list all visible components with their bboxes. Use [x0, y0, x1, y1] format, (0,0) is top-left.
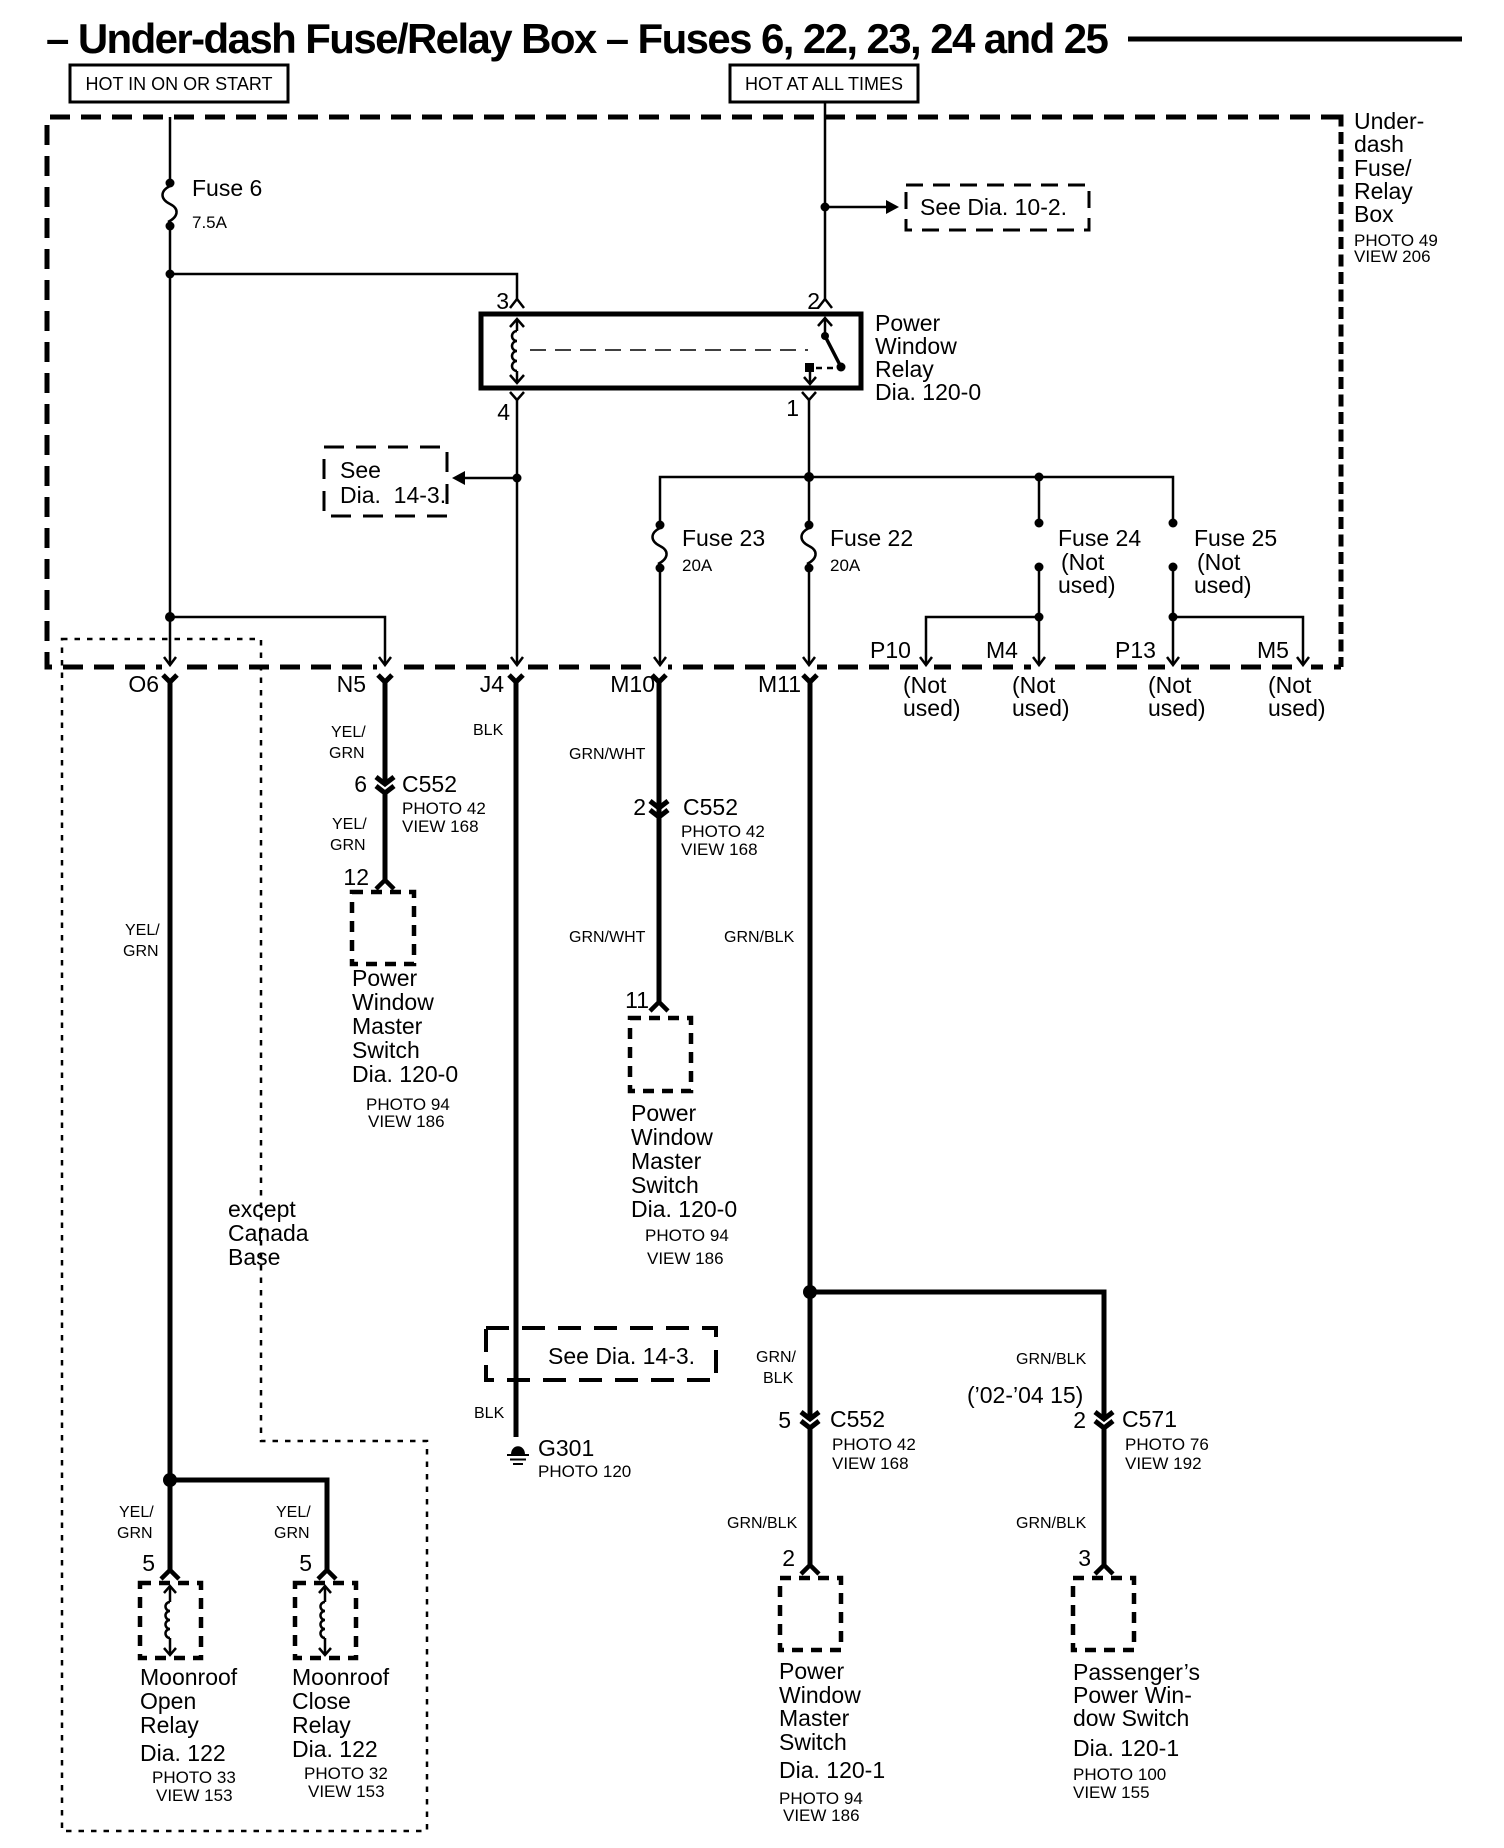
svg-text:BLK: BLK: [763, 1370, 794, 1387]
node junction passenger branch: [803, 1285, 817, 1299]
svg-text:M5: M5: [1257, 637, 1289, 663]
svg-text:Power: Power: [779, 1658, 845, 1684]
under-dash fuse/relay box boundary: [47, 117, 1341, 667]
wire fuse feeder bus: [660, 477, 1173, 525]
svg-text:Moonroof: Moonroof: [292, 1664, 390, 1690]
wire pin 1 down: [808, 400, 811, 477]
node junction See Dia. 14-3: [513, 474, 522, 483]
svg-text:Relay: Relay: [292, 1712, 351, 1738]
svg-text:dash: dash: [1354, 131, 1404, 157]
svg-text:Canada: Canada: [228, 1220, 309, 1246]
svg-text:GRN: GRN: [117, 1525, 153, 1542]
svg-text:Dia. 120-1: Dia. 120-1: [1073, 1735, 1179, 1761]
svg-text:N5: N5: [337, 671, 366, 697]
connector C552 label: [402, 771, 486, 836]
svg-text:Fuse 23: Fuse 23: [682, 525, 765, 551]
node junction to See Dia. 10-2: [821, 203, 830, 212]
switch S3 label: [779, 1658, 885, 1825]
svg-text:PHOTO 42: PHOTO 42: [832, 1435, 916, 1454]
fuse F22: [802, 521, 816, 573]
ground G301: [507, 1446, 529, 1464]
wire fuse6 down to O6: [169, 226, 172, 663]
wire fuse25 to P13/M5: [1167, 567, 1309, 665]
svg-text:VIEW 186: VIEW 186: [783, 1806, 860, 1825]
svg-text:VIEW 168: VIEW 168: [832, 1454, 909, 1473]
relay K3 label: [292, 1664, 390, 1801]
pin 2 entry master switch: [782, 1545, 819, 1574]
fuse F24 (not used) terminals: [1035, 519, 1044, 572]
svg-text:4: 4: [497, 399, 510, 425]
svg-text:J4: J4: [480, 671, 505, 697]
svg-text:YEL/: YEL/: [119, 1504, 154, 1521]
svg-text:PHOTO 76: PHOTO 76: [1125, 1435, 1209, 1454]
wire arrow to See Dia. 14-3: [452, 471, 517, 485]
relay internal dashed link: [530, 349, 808, 351]
svg-text:Power: Power: [631, 1100, 697, 1126]
node HOT IN ON OR START: [70, 65, 288, 102]
svg-text:20A: 20A: [682, 556, 713, 575]
svg-text:PHOTO 32: PHOTO 32: [304, 1764, 388, 1783]
svg-text:GRN/WHT: GRN/WHT: [569, 929, 646, 946]
relay K2 label: [140, 1664, 238, 1805]
svg-text:VIEW 206: VIEW 206: [1354, 247, 1431, 266]
svg-text:Power: Power: [352, 965, 418, 991]
svg-text:Master: Master: [779, 1705, 850, 1731]
relay K3 Moonroof Close Relay box: [295, 1583, 356, 1658]
svg-text:VIEW 153: VIEW 153: [308, 1782, 385, 1801]
switch S4 label: [1073, 1659, 1200, 1802]
svg-text:3: 3: [496, 288, 509, 314]
svg-text:O6: O6: [128, 671, 159, 697]
svg-text:Close: Close: [292, 1688, 351, 1714]
wire passenger lower: [1102, 1426, 1107, 1565]
svg-text:M4: M4: [986, 637, 1018, 663]
svg-text:PHOTO 42: PHOTO 42: [681, 822, 765, 841]
fuse F6 value label: [192, 175, 262, 232]
connector C552 pin 2: [633, 794, 668, 820]
svg-text:Dia. 120-1: Dia. 120-1: [779, 1757, 885, 1783]
wire bus down to fuse 24: [1038, 477, 1041, 523]
svg-text:GRN: GRN: [123, 943, 159, 960]
svg-text:YEL/: YEL/: [125, 922, 160, 939]
wire fuse22 to M11: [803, 568, 815, 665]
pin 5 entry open relay: [142, 1550, 179, 1579]
fuse F25 label: [1194, 525, 1277, 598]
svg-text:(’02-’04 15): (’02-’04 15): [967, 1382, 1083, 1408]
connector C552 pin 6: [354, 771, 394, 797]
svg-text:5: 5: [142, 1550, 155, 1576]
connector C571 label: [1122, 1406, 1209, 1473]
switch S1 Power Window Master Switch box (120-0): [352, 892, 414, 964]
wire color labels GRN/BLK 2: [727, 1515, 1087, 1532]
wire N5 trunk: [383, 680, 388, 783]
wire branch to close relay: [170, 1480, 327, 1570]
svg-text:used): used): [1194, 572, 1252, 598]
svg-text:2: 2: [633, 794, 646, 820]
pin 1 exit chevron: [786, 392, 816, 421]
wire N5 color label: [329, 724, 366, 762]
svg-text:GRN: GRN: [329, 745, 365, 762]
svg-text:C552: C552: [683, 794, 738, 820]
connector C552 label 2: [681, 794, 765, 859]
terminal not-used labels: [903, 672, 1326, 721]
svg-text:5: 5: [778, 1407, 791, 1433]
wire fuse24 to M4/P10: [920, 567, 1045, 665]
svg-text:See Dia. 14-3.: See Dia. 14-3.: [548, 1343, 695, 1369]
svg-text:20A: 20A: [830, 556, 861, 575]
svg-text:VIEW 186: VIEW 186: [647, 1249, 724, 1268]
svg-text:Dia. 14-3.: Dia. 14-3.: [340, 482, 446, 508]
svg-text:2: 2: [1073, 1407, 1086, 1433]
svg-text:Moonroof: Moonroof: [140, 1664, 238, 1690]
node HOT AT ALL TIMES: [730, 65, 918, 102]
connector C552 pin 5: [778, 1407, 819, 1433]
svg-text:Switch: Switch: [779, 1729, 847, 1755]
svg-text:HOT AT ALL TIMES: HOT AT ALL TIMES: [745, 74, 903, 94]
pin 5 entry close relay: [299, 1550, 336, 1579]
svg-text:BLK: BLK: [473, 722, 504, 739]
wire O6 arrow into edge: [164, 657, 176, 665]
connector entry J4: [509, 675, 523, 682]
svg-text:Dia. 120-0: Dia. 120-0: [631, 1196, 737, 1222]
svg-text:See Dia. 10-2.: See Dia. 10-2.: [920, 194, 1067, 220]
wire J4 trunk: [514, 680, 519, 1437]
wire color labels YEL/GRN pair: [117, 1504, 311, 1542]
svg-text:Fuse 25: Fuse 25: [1194, 525, 1277, 551]
pin 4 exit chevron: [497, 392, 524, 425]
node See Dia. 14-3 box upper: [324, 447, 447, 516]
except-canada-base label: [228, 1196, 309, 1270]
svg-text:Dia. 120-0: Dia. 120-0: [352, 1061, 458, 1087]
svg-text:Window: Window: [631, 1124, 713, 1150]
svg-text:3: 3: [1078, 1545, 1091, 1571]
relay K1 label: [875, 310, 981, 405]
wire O6 color label: [123, 922, 160, 960]
svg-text:5: 5: [299, 1550, 312, 1576]
svg-text:Dia. 120-0: Dia. 120-0: [875, 379, 981, 405]
switch S3 Power Window Master Switch box (120-1): [780, 1578, 841, 1650]
svg-text:YEL/: YEL/: [276, 1504, 311, 1521]
svg-text:HOT IN ON OR START: HOT IN ON OR START: [85, 74, 272, 94]
wire: hot-in-on feed to fuse 6: [169, 117, 172, 183]
svg-text:dow Switch: dow Switch: [1073, 1705, 1189, 1731]
svg-text:GRN/BLK: GRN/BLK: [1016, 1351, 1087, 1368]
relay switch contacts: [804, 318, 846, 384]
svg-text:GRN: GRN: [330, 837, 366, 854]
svg-text:11: 11: [625, 987, 649, 1013]
wire N5 lower: [383, 791, 388, 880]
svg-text:2: 2: [782, 1545, 795, 1571]
connector entry M10: [652, 675, 666, 682]
svg-text:GRN/BLK: GRN/BLK: [727, 1515, 798, 1532]
svg-text:VIEW 192: VIEW 192: [1125, 1454, 1202, 1473]
svg-text:VIEW 153: VIEW 153: [156, 1786, 233, 1805]
fuse F25 (not used) terminals: [1169, 519, 1178, 572]
wire to relay pin 3: [170, 274, 517, 299]
svg-text:Window: Window: [352, 989, 434, 1015]
connector entry N5: [378, 675, 392, 682]
pin 12 entry: [343, 864, 394, 890]
wire branch to passenger switch: [810, 1292, 1104, 1418]
switch S2 Power Window Master Switch box (120-0): [630, 1018, 691, 1091]
ground G301 label: [538, 1435, 631, 1481]
connector entry O6: [163, 675, 177, 682]
title rule: [1128, 37, 1462, 42]
node See Dia. 14-3 box lower: [486, 1328, 716, 1380]
svg-text:PHOTO 94: PHOTO 94: [645, 1226, 729, 1245]
svg-text:Fuse 22: Fuse 22: [830, 525, 913, 551]
svg-text:Relay: Relay: [140, 1712, 199, 1738]
terminal labels P10 M4 P13 M5: [870, 637, 1289, 663]
svg-text:Base: Base: [228, 1244, 280, 1270]
svg-text:PHOTO 33: PHOTO 33: [152, 1768, 236, 1787]
svg-text:except: except: [228, 1196, 296, 1222]
terminal labels O6 N5 J4 M10 M11: [128, 671, 801, 697]
svg-text:PHOTO 100: PHOTO 100: [1073, 1765, 1166, 1784]
connector entry M11: [803, 675, 817, 682]
wire open relay drop: [168, 1480, 173, 1570]
svg-text:Master: Master: [631, 1148, 702, 1174]
svg-text:C552: C552: [402, 771, 457, 797]
svg-text:GRN/BLK: GRN/BLK: [1016, 1515, 1087, 1532]
pin 2 entry chevron: [807, 288, 832, 314]
svg-text:YEL/: YEL/: [331, 724, 366, 741]
relay coil between pins 3 and 4: [510, 319, 524, 383]
svg-text:PHOTO 120: PHOTO 120: [538, 1462, 631, 1481]
under-dash fuse/relay box label: [1354, 108, 1438, 266]
svg-text:PHOTO 42: PHOTO 42: [402, 799, 486, 818]
svg-text:See: See: [340, 457, 381, 483]
svg-text:Fuse 24: Fuse 24: [1058, 525, 1141, 551]
svg-text:Dia. 122: Dia. 122: [140, 1740, 226, 1766]
wire pin 4 down to J4: [516, 400, 519, 663]
svg-text:2: 2: [807, 288, 820, 314]
svg-text:GRN: GRN: [274, 1525, 310, 1542]
relay K1 Power Window Relay box: [481, 314, 861, 388]
edge notches at connector crossings: [162, 662, 1311, 671]
svg-text:Switch: Switch: [352, 1037, 420, 1063]
svg-text:VIEW 168: VIEW 168: [681, 840, 758, 859]
svg-text:P13: P13: [1115, 637, 1156, 663]
svg-text:GRN/WHT: GRN/WHT: [569, 746, 646, 763]
node junction fuse6 to relay coil: [166, 270, 175, 279]
svg-text:used): used): [1268, 695, 1326, 721]
svg-text:C571: C571: [1122, 1406, 1177, 1432]
except-canada-base dotted boundary: [62, 639, 427, 1831]
wire M11 trunk: [808, 680, 813, 1418]
pin 3 entry chevron: [496, 288, 524, 314]
wire branch to N5: [170, 617, 391, 665]
svg-text:VIEW 155: VIEW 155: [1073, 1783, 1150, 1802]
svg-text:G301: G301: [538, 1435, 594, 1461]
svg-text:C552: C552: [830, 1406, 885, 1432]
svg-text:GRN/BLK: GRN/BLK: [724, 929, 795, 946]
svg-text:1: 1: [786, 395, 799, 421]
svg-text:Fuse 6: Fuse 6: [192, 175, 262, 201]
switch S2 label: [631, 1100, 737, 1268]
fuse F6: [163, 179, 177, 231]
connector C571 pin 2: [1073, 1407, 1113, 1433]
node junction O6 to N5: [165, 612, 175, 622]
svg-text:Open: Open: [140, 1688, 196, 1714]
wire M10 lower: [657, 804, 662, 1002]
svg-text:used): used): [1058, 572, 1116, 598]
wire O6 trunk: [168, 680, 173, 1480]
svg-text:6: 6: [354, 771, 367, 797]
node moonroof branch junction: [163, 1473, 177, 1487]
fuse F24 label: [1058, 525, 1141, 598]
svg-text:12: 12: [343, 864, 369, 890]
svg-text:Master: Master: [352, 1013, 423, 1039]
svg-text:BLK: BLK: [474, 1405, 505, 1422]
switch S4 Passenger Power Window Switch box (120-1): [1073, 1578, 1134, 1650]
wire: hot-at-all-times feed to relay pin 2: [824, 102, 827, 299]
node See Dia. 10-2 box: [906, 185, 1089, 230]
relay K2 Moonroof Open Relay box: [140, 1583, 201, 1658]
svg-text:Box: Box: [1354, 201, 1394, 227]
pin 3 entry passenger switch: [1078, 1545, 1113, 1574]
wire fuse23 to M10: [654, 568, 666, 665]
svg-text:– Under-dash Fuse/Relay Box –: – Under-dash Fuse/Relay Box – Fuses 6, 2…: [46, 15, 1108, 62]
svg-text:M10: M10: [610, 671, 655, 697]
pin 11 entry: [625, 987, 668, 1013]
wire M10 trunk: [657, 680, 662, 807]
switch S1 label: [352, 965, 458, 1131]
node junction pin1/bus: [804, 472, 814, 482]
svg-text:used): used): [903, 695, 961, 721]
wire arrow to See Dia. 10-2: [825, 200, 899, 214]
fuse F22 label: [830, 525, 913, 575]
svg-text:Switch: Switch: [631, 1172, 699, 1198]
svg-text:used): used): [1012, 695, 1070, 721]
svg-text:VIEW 186: VIEW 186: [368, 1112, 445, 1131]
svg-text:7.5A: 7.5A: [192, 213, 228, 232]
svg-text:VIEW 168: VIEW 168: [402, 817, 479, 836]
connector C552 label 3: [830, 1406, 916, 1473]
svg-text:Dia. 122: Dia. 122: [292, 1736, 378, 1762]
wire M11 lower: [808, 1426, 813, 1565]
fuse F23: [653, 521, 667, 573]
node junction bus/fuse24: [1035, 473, 1044, 482]
svg-text:used): used): [1148, 695, 1206, 721]
svg-text:P10: P10: [870, 637, 911, 663]
fuse F23 label: [682, 525, 765, 575]
wire pin1 to fuse 22: [808, 477, 811, 525]
svg-text:M11: M11: [758, 671, 801, 697]
wire color labels GRN/BLK: [756, 1349, 1087, 1387]
wire N5 color label 2: [330, 816, 367, 854]
svg-text:YEL/: YEL/: [332, 816, 367, 833]
svg-text:GRN/: GRN/: [756, 1349, 797, 1366]
